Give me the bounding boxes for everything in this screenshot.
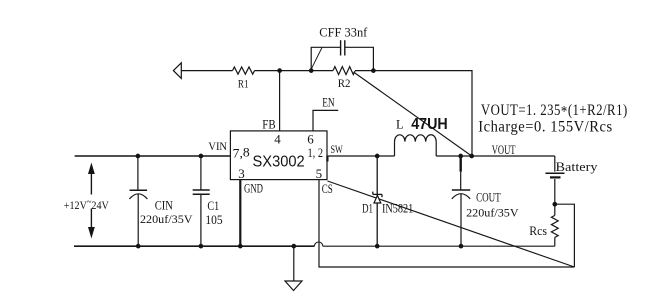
- svg-text:6: 6: [307, 131, 314, 146]
- svg-text:CS: CS: [322, 182, 333, 196]
- svg-text:105: 105: [205, 213, 222, 227]
- svg-text:GND: GND: [244, 182, 263, 196]
- svg-text:220uf/35V: 220uf/35V: [140, 212, 193, 226]
- svg-text:Battery: Battery: [556, 159, 599, 174]
- svg-text:VOUT: VOUT: [492, 143, 516, 157]
- svg-text:IN5821: IN5821: [382, 201, 413, 215]
- svg-text:220uf/35V: 220uf/35V: [466, 205, 519, 219]
- svg-text:Rcs: Rcs: [529, 224, 547, 238]
- svg-text:7,8: 7,8: [233, 144, 250, 160]
- svg-text:R1: R1: [238, 77, 249, 91]
- svg-text:+12V~24V: +12V~24V: [64, 197, 109, 212]
- svg-text:1, 2: 1, 2: [308, 145, 324, 160]
- svg-text:47UH: 47UH: [411, 116, 448, 133]
- svg-text:L: L: [396, 118, 404, 132]
- svg-text:CFF 33nf: CFF 33nf: [319, 26, 368, 40]
- svg-text:D1: D1: [362, 201, 373, 215]
- svg-text:COUT: COUT: [476, 191, 501, 205]
- svg-text:EN: EN: [322, 96, 334, 110]
- svg-text:FB: FB: [262, 117, 275, 131]
- svg-text:CIN: CIN: [155, 198, 173, 212]
- svg-text:R2: R2: [338, 76, 351, 90]
- svg-text:SX3002: SX3002: [253, 154, 305, 171]
- svg-text:3: 3: [238, 166, 245, 181]
- svg-text:C1: C1: [207, 199, 219, 213]
- svg-text:Icharge=0. 155V/Rcs: Icharge=0. 155V/Rcs: [478, 119, 613, 136]
- svg-text:SW: SW: [331, 142, 344, 156]
- svg-text:4: 4: [274, 132, 281, 147]
- svg-text:VIN: VIN: [208, 139, 227, 153]
- svg-text:5: 5: [316, 166, 323, 181]
